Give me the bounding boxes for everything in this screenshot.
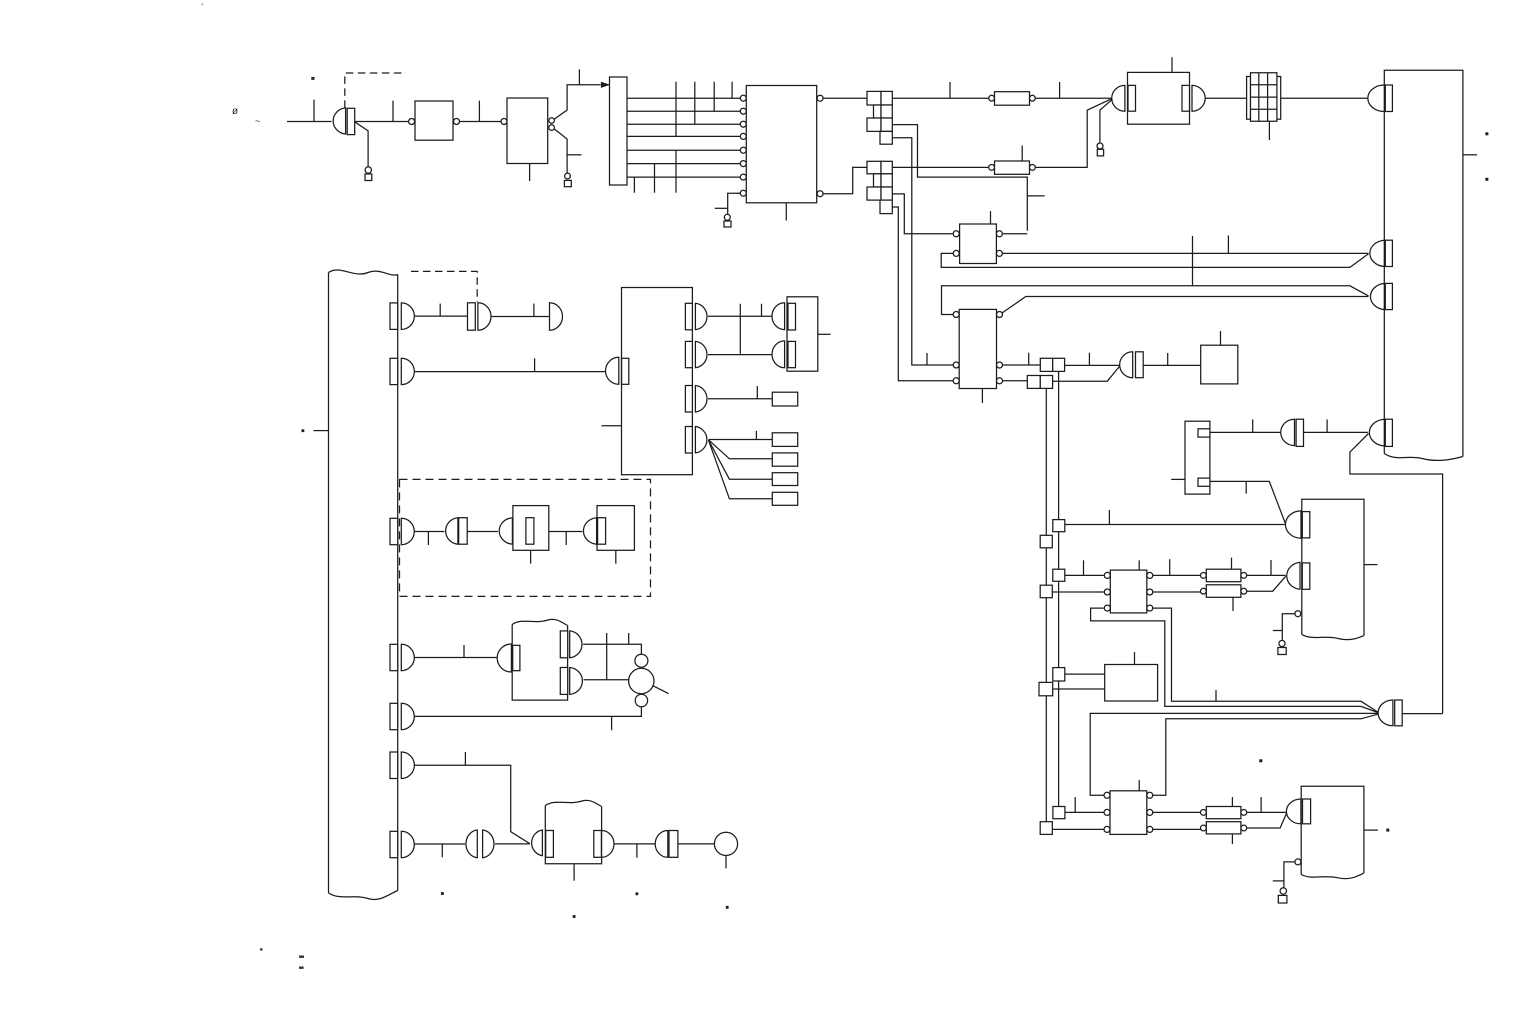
dot right of U13 bbox=[1386, 829, 1389, 832]
pin rect G6 bbox=[1296, 419, 1303, 446]
pin rect G2 bbox=[1136, 352, 1144, 378]
tick on row1 wire bbox=[439, 304, 441, 317]
cluster big circle bbox=[629, 668, 654, 693]
P2 pin3 D bbox=[1370, 283, 1384, 309]
bubble U4 in8 bbox=[740, 190, 746, 196]
testpoint TP4 circle bbox=[1097, 143, 1103, 149]
bubble R2 right bbox=[1030, 165, 1036, 171]
resistor R4 bbox=[1206, 822, 1241, 834]
box B gate g4 D bbox=[695, 427, 706, 453]
P2 pin2 rect bbox=[1385, 240, 1392, 266]
pin U9 top bbox=[1138, 560, 1140, 570]
resistor R6 bbox=[1206, 585, 1241, 598]
net pin4 feedback bbox=[1350, 434, 1443, 714]
bubble U2 input bbox=[501, 119, 507, 125]
tick down on row3 wire bbox=[427, 532, 429, 546]
stub below row6 bbox=[654, 164, 656, 193]
net U12 top-right to G4 bbox=[1153, 714, 1378, 795]
bubble R3 right bbox=[1241, 810, 1247, 816]
bus tap vertical c bbox=[713, 82, 715, 112]
gate into box S top bbox=[772, 303, 785, 330]
tick on G8 wire bbox=[1108, 510, 1110, 525]
tick on RN1-R1 wire bbox=[949, 82, 951, 98]
cluster small circle bottom bbox=[635, 694, 647, 706]
net RN1 row3 to U6 bbox=[892, 125, 1027, 231]
P1 pin row6 D bbox=[401, 752, 414, 779]
U14 pin rect left bbox=[513, 645, 520, 670]
wire U7 right3 to J2 bbox=[1003, 380, 1028, 382]
cluster diagonal lead bbox=[652, 685, 668, 693]
tick on clock wire bbox=[313, 100, 315, 122]
bubble U7 left2 bbox=[953, 362, 959, 368]
wire pinB to cluster bbox=[584, 679, 629, 681]
fan resistor Rd bbox=[772, 492, 797, 505]
bubble R4 right bbox=[1241, 825, 1247, 831]
net R4 to G5 bbox=[1247, 813, 1287, 828]
bubble R2 left bbox=[989, 165, 995, 171]
wire C2 to C3 bbox=[467, 531, 498, 533]
wire J1 to G2 bbox=[1065, 364, 1120, 366]
dot top margin bbox=[202, 4, 204, 6]
bubble U4 in7 bbox=[740, 174, 746, 180]
U14 pinA D bbox=[570, 631, 582, 658]
bus junction vertical bbox=[1192, 236, 1194, 286]
bubble U2 output B bbox=[549, 125, 555, 131]
bubble U4 out2 bbox=[817, 191, 823, 197]
box B gate g1 rect bbox=[685, 303, 692, 330]
wire G0 output bbox=[355, 121, 409, 123]
box B gate g3 rect bbox=[685, 386, 692, 413]
wire U3 row6 bbox=[627, 163, 740, 165]
pin U4 bottom bbox=[785, 203, 787, 221]
tick on J1-G2 wire bbox=[1088, 353, 1090, 366]
resistor R5 bbox=[1206, 569, 1241, 582]
X1 inner square bottom bbox=[1198, 478, 1210, 486]
U5 left D bbox=[1112, 85, 1125, 111]
net cluster to P1 row5 bbox=[414, 707, 641, 717]
wire Jc to U9 bbox=[1065, 574, 1105, 576]
box U10 bbox=[1105, 665, 1158, 702]
filter FL1 left plate bbox=[1247, 77, 1251, 120]
tick on fan wire a bbox=[755, 431, 757, 440]
resistor R1 bbox=[995, 92, 1030, 106]
bubble U11 bottom-left bbox=[1295, 611, 1301, 617]
P1 pin row5 rect bbox=[390, 703, 398, 729]
wire g1 bbox=[708, 315, 772, 317]
component C2 D bbox=[446, 518, 458, 545]
bubble U4 in5 bbox=[740, 147, 746, 153]
bubble U12 left3 bbox=[1104, 826, 1110, 832]
tick down on U15 wire bbox=[636, 844, 638, 858]
fan resistor Rc bbox=[772, 473, 797, 486]
bubble U6 left1 bbox=[953, 231, 959, 237]
fan wire g4 a bbox=[709, 439, 773, 441]
box U12 bbox=[1110, 791, 1147, 835]
U14 pinB rect bbox=[560, 668, 567, 695]
pin C3 bottom bbox=[530, 550, 532, 563]
wire U9 to R5 bbox=[1153, 574, 1201, 576]
tick on C1 output bbox=[533, 304, 535, 317]
filter FL1 right plate bbox=[1277, 77, 1281, 120]
net U7 right1 to pin3 bus bbox=[1002, 297, 1368, 313]
U11 gate G8 rect bbox=[1302, 512, 1310, 538]
bubble U4 in1 bbox=[740, 95, 746, 101]
bubble U9 right1 bbox=[1147, 572, 1153, 578]
component C2 rect bbox=[459, 518, 468, 545]
U5 right pin rect bbox=[1182, 85, 1190, 111]
bubble R5 right bbox=[1241, 573, 1247, 579]
wire coupling to gate bbox=[495, 843, 530, 845]
tick on row4 net bbox=[926, 353, 928, 365]
gate G4 bbox=[1378, 700, 1393, 726]
vertical link pinA-pinB bbox=[606, 644, 608, 679]
P1 pin row3 rect bbox=[390, 518, 398, 544]
component C4 inner rect bbox=[598, 518, 606, 545]
net U2 outB down bbox=[554, 129, 567, 173]
bubble U6 right1 bbox=[996, 231, 1002, 237]
tick down on C3-C4 wire bbox=[565, 532, 567, 546]
svg-text:ø: ø bbox=[232, 106, 238, 117]
box B gate g1 D bbox=[695, 303, 707, 329]
net U9 left3 to G4 bbox=[1091, 608, 1378, 712]
pin C4 bottom bbox=[615, 550, 617, 563]
wire P1 row3 bbox=[414, 531, 444, 533]
dot bottom-left bbox=[260, 948, 262, 950]
bubble U12 right2 bbox=[1147, 809, 1153, 815]
box S pin rect top bbox=[788, 303, 796, 330]
wire C5 to terminal bbox=[678, 843, 715, 845]
tick on row6 wire bbox=[464, 752, 466, 765]
P2 right stub bbox=[1463, 154, 1477, 156]
tick on decoder wire bbox=[578, 69, 580, 84]
tick on X1-G6 wire bbox=[1252, 420, 1254, 433]
pin U12 top bbox=[1138, 780, 1140, 791]
P1 wavy bottom bbox=[329, 891, 398, 900]
wire g2 bbox=[708, 354, 772, 356]
pin U15 bottom bbox=[573, 864, 575, 881]
fan wire g4 d bbox=[709, 440, 773, 499]
tick below R6 bbox=[1232, 597, 1234, 611]
P2 pin1 D bbox=[1368, 85, 1384, 112]
wire X1 bottom to G8 bbox=[1210, 481, 1286, 523]
tick before J1 bbox=[1028, 353, 1030, 365]
dot left of P1 bbox=[302, 429, 305, 432]
P1 pin row7 rect bbox=[390, 831, 398, 857]
net U7 left1 to pin3 bus bbox=[942, 286, 1369, 315]
bubble U4 in4 bbox=[740, 133, 746, 139]
P1 pin row4 D bbox=[401, 644, 414, 670]
net RN2 row3 to U6 bbox=[892, 194, 953, 234]
net U12 top-left to G4 bbox=[1090, 713, 1378, 795]
wire pinA to cluster bbox=[583, 644, 641, 654]
wire P1 row4 bbox=[414, 657, 497, 659]
filter FL1 grid bbox=[1251, 73, 1277, 122]
box U9 bbox=[1110, 570, 1147, 613]
tick on R3-G5 wire bbox=[1260, 797, 1262, 812]
box U8 bbox=[1201, 345, 1238, 384]
connector P1 body bbox=[329, 273, 398, 894]
tick on R1-U5 wire bbox=[1059, 82, 1061, 98]
testpoint TP6 net bbox=[1284, 862, 1295, 888]
bubble U7 left3 bbox=[953, 378, 959, 384]
U13 right stub bbox=[1364, 829, 1378, 831]
testpoint TP2 circle bbox=[565, 173, 571, 179]
wire U3 row3 bbox=[627, 123, 740, 125]
bubble U13 bottom-left bbox=[1295, 859, 1301, 865]
P2 pin4 rect bbox=[1385, 419, 1392, 446]
bubble R4 left bbox=[1201, 825, 1207, 831]
tick on G4 top wire bbox=[1215, 690, 1217, 701]
resistor network RN1 bbox=[867, 91, 892, 144]
pin U6 top bbox=[990, 211, 992, 224]
bubble U9 left3 bbox=[1104, 605, 1110, 611]
tick left on TP5 net bbox=[1273, 630, 1283, 632]
wire R1 to U5 bbox=[1035, 97, 1112, 99]
bubble R1 left bbox=[989, 95, 995, 101]
testpoint TP4 net bbox=[1100, 99, 1113, 143]
box S right stub bbox=[818, 333, 831, 335]
wire X1 to G6 bbox=[1210, 431, 1281, 433]
box B gate g3 D bbox=[695, 386, 707, 413]
component C5 rect bbox=[669, 831, 678, 858]
wire C3 to C4 bbox=[549, 531, 583, 533]
bubble U4 in3 bbox=[740, 121, 746, 127]
component C3 box bbox=[513, 506, 549, 551]
wire P1 row6 bbox=[414, 765, 530, 844]
tick left on TP6 net bbox=[1273, 880, 1284, 882]
bubble U2 output A bbox=[549, 118, 555, 124]
junction square J5 bbox=[1053, 807, 1065, 819]
bubble U6 left2 bbox=[953, 250, 959, 256]
bubble R1 right bbox=[1030, 95, 1036, 101]
tick on R5-G9 wire bbox=[1270, 560, 1272, 575]
box B bbox=[622, 288, 693, 475]
testpoint TP6 circle bbox=[1280, 888, 1286, 894]
jumper J1 bbox=[1040, 358, 1064, 371]
pin U5 top bbox=[1171, 57, 1173, 72]
wire R3 to G5 bbox=[1247, 811, 1287, 813]
gate G6 bbox=[1281, 419, 1295, 445]
wire R5 to G9 bbox=[1247, 574, 1286, 576]
P1 pin row3 D bbox=[401, 518, 414, 544]
testpoint TP2 square bbox=[564, 180, 571, 186]
delay line U5 body bbox=[1128, 72, 1190, 124]
U5 left pin rect bbox=[1128, 85, 1136, 111]
tick down on row7 wire bbox=[441, 844, 443, 857]
stub right on row3 net bbox=[1027, 195, 1044, 197]
tick on pinA wire b bbox=[628, 633, 630, 644]
box U14 bbox=[512, 625, 567, 701]
pin U8 top bbox=[1220, 331, 1222, 345]
wire U1 to U2 bbox=[460, 121, 502, 123]
box B left stub bbox=[602, 425, 622, 427]
junction square Jc bbox=[1053, 569, 1065, 581]
component C4 D bbox=[583, 518, 596, 545]
testpoint TP1 square bbox=[365, 174, 372, 181]
box U1 bbox=[415, 101, 453, 140]
net RN2 row4 to U7 bbox=[892, 207, 953, 381]
net U2 outA to decoder bbox=[554, 85, 600, 119]
stub below row7 bbox=[633, 177, 635, 193]
tick on X1 bottom wire bbox=[1245, 481, 1247, 493]
bubble U4 in2 bbox=[740, 108, 746, 114]
X1 inner square top bbox=[1198, 429, 1210, 437]
wire clock input bbox=[287, 121, 332, 123]
component C1 D bbox=[478, 303, 491, 330]
tick on row2 wire bbox=[534, 358, 536, 371]
P1 pin row1 rect bbox=[390, 303, 398, 330]
bubble R6 left bbox=[1201, 588, 1207, 594]
box B gate g2 rect bbox=[685, 341, 692, 367]
P1 pin row2 rect bbox=[390, 358, 398, 384]
tick on J5 wire bbox=[1074, 797, 1076, 812]
U11 right stub bbox=[1364, 564, 1378, 566]
terminal stub bbox=[725, 856, 727, 869]
wire U4 out1 to RN1 bbox=[823, 97, 867, 99]
terminal circle bbox=[714, 832, 737, 855]
tiny text bottom-left b bbox=[299, 967, 304, 969]
P1 pin row7 D bbox=[401, 831, 414, 857]
tick left on in8 net bbox=[715, 207, 728, 209]
tick above R2 bbox=[1021, 146, 1023, 162]
dot right of P2 a bbox=[1485, 132, 1488, 135]
tick on pinA wire a bbox=[606, 633, 608, 644]
U14 pinA rect bbox=[560, 631, 567, 658]
gate G5 bbox=[1286, 799, 1301, 824]
wire U15 to C5 bbox=[614, 843, 655, 845]
wire RN2 row1 to R2 bbox=[892, 166, 988, 168]
wire J3 to U10 bbox=[1065, 673, 1105, 675]
bus U6 out2 to P2 pin2 bbox=[1002, 252, 1368, 254]
U13 wavy bottom bbox=[1301, 873, 1364, 879]
bubble U12 right1 bbox=[1147, 792, 1153, 798]
box B gate g2 D bbox=[695, 341, 707, 367]
gate into box U14 bbox=[497, 644, 511, 672]
box B gate g4 rect bbox=[685, 427, 692, 454]
long vertical from J2 bbox=[1045, 388, 1047, 821]
component C1 rect bbox=[468, 303, 476, 330]
P2 pin4 D bbox=[1369, 419, 1384, 446]
bubble U9 left1 bbox=[1104, 572, 1110, 578]
tick on g1 wire bbox=[761, 304, 763, 317]
coupling D right bbox=[483, 830, 494, 858]
net U9 right3 to G4 bbox=[1153, 608, 1378, 712]
gate into box B bbox=[606, 357, 619, 384]
U15 right pin rect bbox=[594, 831, 602, 858]
box U4 bbox=[746, 86, 816, 203]
bubble R5 left bbox=[1201, 573, 1207, 579]
bus tap vertical a bbox=[675, 82, 677, 137]
header connector X1 bbox=[1185, 421, 1210, 494]
bubble R3 left bbox=[1201, 810, 1207, 816]
fan resistor Ra bbox=[772, 433, 797, 447]
U14 pinB D bbox=[570, 668, 583, 695]
dot right of P2 b bbox=[1485, 178, 1488, 181]
bubble U7 right1 bbox=[997, 312, 1003, 318]
vertical link g1-g2 bbox=[739, 304, 741, 354]
pin rect into U15 bbox=[546, 831, 554, 858]
stub below row5 bbox=[675, 150, 677, 193]
bubble R6 right bbox=[1241, 588, 1247, 594]
box S bbox=[787, 297, 818, 371]
tick on pin2 bus bbox=[1227, 236, 1229, 254]
gate into box U15 bbox=[532, 830, 543, 856]
P1 pin row2 D bbox=[401, 358, 414, 384]
wire Jd to U9 bbox=[1052, 591, 1104, 593]
bubble U12 left1 bbox=[1104, 792, 1110, 798]
decoder U3 bbox=[610, 77, 628, 185]
wire U9 to R6 bbox=[1153, 591, 1201, 593]
wire U7 right2 to J1 bbox=[1003, 364, 1041, 366]
dot below row7 a bbox=[441, 892, 444, 895]
coupling D left bbox=[466, 830, 477, 858]
resistor R0 bbox=[772, 392, 797, 406]
P1 pin row5 D bbox=[401, 703, 414, 729]
bubble U7 left1 bbox=[953, 312, 959, 318]
wire U12 to R3 bbox=[1153, 811, 1201, 813]
component C4 box bbox=[597, 506, 634, 551]
wire U3 row2 bbox=[627, 110, 740, 112]
wire J5 to U12 bbox=[1065, 811, 1104, 813]
net RN1 row4 to U7 bbox=[892, 138, 953, 365]
dot below C5 bbox=[636, 892, 639, 895]
U11 wavy bottom bbox=[1302, 635, 1364, 640]
wire FL1 to P2 pin1 bbox=[1281, 97, 1368, 99]
U11 gate G9 rect bbox=[1302, 563, 1310, 589]
jumper J2 bbox=[1027, 376, 1052, 389]
bubble U9 right2 bbox=[1147, 589, 1153, 595]
gate G2 bbox=[1120, 352, 1133, 378]
box U13 bbox=[1301, 786, 1364, 874]
tick above R5 bbox=[1231, 558, 1233, 570]
resistor network RN2 bbox=[867, 161, 892, 213]
wire J6 to U12 bbox=[1052, 828, 1104, 830]
resistor R3 bbox=[1206, 807, 1241, 819]
P1 wavy top bbox=[329, 270, 398, 275]
bubble U9 left2 bbox=[1104, 589, 1110, 595]
bubble A1 input bbox=[409, 119, 415, 125]
junction square Jd bbox=[1040, 585, 1052, 598]
tick on G2-U8 wire bbox=[1167, 353, 1169, 365]
U5 right D bbox=[1192, 85, 1205, 111]
wire U3 row1 bbox=[627, 97, 740, 99]
dashed option box bbox=[400, 479, 651, 596]
component C3 D bbox=[499, 518, 512, 545]
wire C1 output bbox=[491, 316, 549, 318]
connector P2 body bbox=[1384, 70, 1463, 456]
bus tap vertical d bbox=[731, 82, 733, 99]
svg-text:~: ~ bbox=[255, 116, 260, 126]
wire U3 row4 bbox=[627, 135, 740, 137]
bubble U12 right3 bbox=[1147, 826, 1153, 832]
fan resistor Rb bbox=[772, 453, 797, 466]
wire into U6 top-right bubble bbox=[1003, 233, 1027, 235]
tick on row4 wire bbox=[463, 645, 465, 658]
dot mid-bottom-right bbox=[1259, 759, 1262, 762]
tick on G6-pin4 wire bbox=[1326, 420, 1328, 433]
wire bus to G8 bbox=[1065, 524, 1286, 526]
tick down on row5 wire bbox=[611, 716, 613, 730]
wire P1 row2 to gate bbox=[414, 371, 606, 373]
resistor R2 bbox=[995, 161, 1030, 174]
net R6 to G9 bbox=[1247, 576, 1286, 591]
wire g3 bbox=[708, 398, 772, 400]
component C5 D bbox=[655, 831, 668, 858]
bubble U7 right3 bbox=[997, 378, 1003, 384]
testpoint TP1 stub bbox=[355, 122, 368, 167]
testpoint TP6 square bbox=[1278, 895, 1287, 903]
testpoint TP5 square bbox=[1278, 648, 1286, 655]
